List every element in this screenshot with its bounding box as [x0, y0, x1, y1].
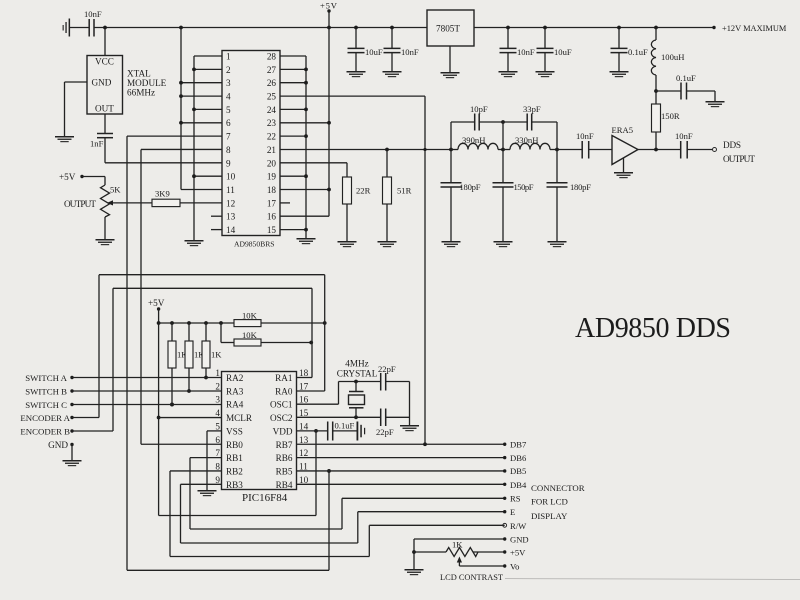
node C [555, 148, 559, 152]
node B [501, 148, 505, 152]
resistor 10K (upper, to ENCODER A line) [234, 311, 327, 327]
svg-text:VDD: VDD [273, 426, 293, 436]
ground (150pF node B) [494, 241, 513, 247]
svg-text:SWITCH A: SWITCH A [25, 373, 67, 383]
IC U1 AD9850BRS body [222, 51, 280, 249]
svg-text:10K: 10K [242, 311, 258, 321]
wire ENCODER B to PIC RA1 (routed over top) [72, 288, 312, 431]
svg-text:11: 11 [299, 462, 308, 472]
svg-text:13: 13 [226, 212, 236, 222]
wire MCLR to +5V [157, 416, 222, 420]
ground (10nF x392) [383, 71, 402, 77]
svg-text:GND: GND [510, 535, 529, 545]
capacitor 1nF (xtal out) [90, 114, 113, 149]
node ENCODER B terminal [20, 427, 73, 437]
svg-text:10: 10 [226, 172, 236, 182]
svg-text:12: 12 [299, 448, 309, 458]
AD9850 pin 17 stub [280, 202, 290, 204]
svg-text:11: 11 [226, 185, 235, 195]
svg-text:FOR LCD: FOR LCD [531, 497, 568, 507]
capacitor 10nF (rail, x508) [500, 26, 535, 71]
capacitor 10nF (series into ERA5) [557, 131, 612, 159]
ground (under 7805) [441, 72, 460, 78]
svg-text:+5V: +5V [59, 172, 76, 182]
wire LCD GND row [412, 539, 505, 569]
wire +5V return to VDD (routed under PIC) [159, 429, 318, 516]
inductor 100uH [651, 26, 684, 104]
ground (AD9850 right bus) [297, 238, 316, 244]
wire OSC2 row [297, 415, 381, 419]
op-amp ERA5 (MMIC amplifier) [612, 125, 639, 172]
svg-text:DB7: DB7 [510, 440, 527, 450]
svg-text:MCLR: MCLR [226, 413, 253, 423]
capacitor 10nF (DDS output coupling) [675, 131, 713, 159]
ground (22R) [338, 241, 357, 247]
svg-text:+5V: +5V [320, 1, 338, 11]
svg-text:+5V: +5V [510, 548, 526, 558]
svg-text:RB0: RB0 [226, 440, 243, 450]
svg-text:7: 7 [226, 132, 231, 142]
inductor 330nH [503, 135, 557, 150]
svg-text:OUTPUT: OUTPUT [723, 154, 755, 164]
svg-text:27: 27 [267, 65, 277, 75]
wire xtal GND to ground [65, 82, 88, 136]
svg-text:1: 1 [226, 52, 231, 62]
svg-text:8: 8 [215, 462, 220, 472]
svg-text:ERA5: ERA5 [612, 125, 633, 135]
svg-text:10nF: 10nF [675, 131, 693, 141]
wire rail to AD9850 pins 3,4,6,11 (x181 drop) [179, 26, 222, 190]
wire RB6 row to DB6 [297, 457, 505, 459]
svg-text:SWITCH C: SWITCH C [25, 400, 67, 410]
wire VDD row [297, 430, 328, 432]
wire AD9850 left ground bus (pins 1,2,5,10) [192, 56, 222, 240]
ground (xtal module) [55, 136, 74, 142]
node ENCODER A terminal [20, 413, 73, 423]
svg-text:10nF: 10nF [401, 47, 419, 57]
node A (filter input) [449, 148, 453, 152]
svg-text:0.1uF: 0.1uF [676, 73, 696, 83]
capacitor 180pF (node A) [441, 150, 481, 242]
svg-text:22R: 22R [356, 186, 371, 196]
svg-text:17: 17 [267, 198, 277, 208]
svg-text:14: 14 [299, 421, 309, 431]
capacitor 0.1uF (rail, x619) [611, 26, 649, 71]
svg-text:Vo: Vo [510, 562, 519, 572]
ground (0.1uF after 100uH) [706, 101, 725, 107]
node DB6 terminal [503, 453, 527, 463]
capacitor 10nF (rail, x392) [384, 26, 419, 71]
node SWITCH B terminal [25, 386, 73, 396]
node GND terminal (LCD) [503, 535, 529, 545]
svg-text:DB5: DB5 [510, 466, 526, 476]
svg-text:RB4: RB4 [276, 480, 293, 490]
svg-text:RB5: RB5 [276, 467, 293, 477]
wire SWITCH A to PIC RA2 [72, 377, 222, 379]
svg-text:E: E [510, 507, 515, 517]
capacitor 33pF (bridge over 330nH) [503, 104, 557, 150]
svg-text:ENCODER B: ENCODER B [20, 427, 70, 437]
svg-text:180pF: 180pF [570, 182, 591, 192]
svg-text:GND: GND [48, 440, 68, 450]
svg-text:51R: 51R [397, 186, 412, 196]
svg-text:18: 18 [299, 368, 309, 378]
resistor 1K (pull-up RA3) [185, 321, 205, 393]
svg-text:20: 20 [267, 158, 277, 168]
ground (crystal) [400, 425, 419, 431]
svg-text:7: 7 [215, 448, 220, 458]
PIC16F84 pin numbers left [215, 368, 220, 485]
svg-text:8: 8 [226, 145, 231, 155]
wire +12V rail (right of 7805) [474, 27, 714, 29]
crystal 4MHz [337, 359, 378, 418]
capacitor 0.1uF (after 100uH) [654, 73, 715, 101]
ground (AD9850 left bus) [185, 240, 204, 246]
capacitor 180pF (node C) [547, 150, 592, 242]
svg-text:SWITCH B: SWITCH B [25, 386, 67, 396]
faint scan line (bottom right) [505, 579, 800, 580]
capacitor 150pF (node B) [493, 150, 534, 242]
PIC16F84 pin names right [270, 373, 293, 490]
IC U2 PIC16F84 body [222, 372, 297, 505]
ground (0.1uF x619) [610, 71, 629, 77]
svg-text:R/W: R/W [510, 521, 527, 531]
svg-text:PIC16F84: PIC16F84 [242, 492, 288, 504]
svg-text:5: 5 [215, 421, 220, 431]
inductor 390nH [451, 135, 503, 150]
svg-text:VSS: VSS [226, 426, 243, 436]
svg-text:3K9: 3K9 [155, 189, 170, 199]
svg-text:OUT: OUT [95, 104, 114, 114]
ground (ERA5) [614, 172, 633, 178]
node Vo terminal (LCD) [503, 562, 519, 572]
svg-text:2: 2 [226, 65, 231, 75]
ground (10nF x508) [499, 71, 518, 77]
svg-text:LCD CONTRAST: LCD CONTRAST [440, 573, 503, 582]
svg-text:RA2: RA2 [226, 373, 244, 383]
wire AD9850 right ground bus (pins 28,27,26,24,22,19,15) [280, 56, 308, 238]
resistor 51R (pin 21 line) [383, 148, 412, 241]
svg-text:22pF: 22pF [378, 364, 396, 374]
svg-text:25: 25 [267, 92, 277, 102]
wire RB3 to LCD E (routed under) [181, 484, 505, 543]
svg-text:XTAL: XTAL [127, 69, 151, 79]
PIC16F84 pin numbers right [299, 368, 309, 485]
wire RB2 to LCD R/W (routed under) [170, 471, 505, 557]
wire crystal caps to ground [409, 382, 411, 426]
svg-text:4MHz: 4MHz [345, 359, 368, 369]
svg-text:RB6: RB6 [276, 453, 293, 463]
svg-text:330nH: 330nH [515, 135, 538, 145]
wire SWITCH B to PIC RA3 [72, 390, 222, 392]
node GND terminal [48, 440, 74, 460]
AD9850 pin 13,14 stubs [211, 216, 222, 229]
wire RB5 row to DB5 [297, 470, 505, 472]
svg-text:CRYSTAL: CRYSTAL [337, 369, 378, 379]
capacitor 22pF (OSC1) [378, 364, 410, 391]
capacitor 10uF (rail, x356) [348, 26, 383, 71]
resistor 150R [652, 104, 680, 150]
ground (PIC VSS) [198, 490, 217, 496]
node DB5 terminal [503, 466, 526, 476]
svg-text:RB7: RB7 [276, 440, 293, 450]
svg-text:RB2: RB2 [226, 467, 243, 477]
svg-text:0.1uF: 0.1uF [335, 421, 355, 431]
svg-text:17: 17 [299, 381, 309, 391]
node DB4 terminal [503, 480, 527, 490]
svg-text:10nF: 10nF [517, 47, 535, 57]
svg-text:RS: RS [510, 494, 521, 504]
node SWITCH C terminal [25, 400, 73, 410]
capacitor 22pF (OSC2) [376, 409, 410, 438]
svg-text:DB4: DB4 [510, 480, 527, 490]
ground (10uF x356) [347, 71, 366, 77]
svg-text:RB3: RB3 [226, 480, 243, 490]
wire AD9850 pin 8 FQ_UD (down to x141) [141, 149, 222, 444]
ground (51R) [378, 241, 397, 247]
wire RB4 row to DB4 [297, 483, 505, 485]
svg-text:150pF: 150pF [514, 182, 534, 192]
svg-text:10uF: 10uF [365, 47, 383, 57]
wire SWITCH C to PIC RA4 [72, 404, 222, 406]
node RS terminal [503, 494, 521, 504]
svg-text:15: 15 [299, 408, 309, 418]
resistor 1K (pull-up RA4) [168, 321, 188, 406]
svg-text:+5V: +5V [148, 298, 165, 308]
svg-text:10nF: 10nF [576, 131, 594, 141]
svg-text:66MHz: 66MHz [127, 88, 155, 98]
node SWITCH A terminal [25, 373, 73, 383]
svg-text:4: 4 [215, 408, 220, 418]
wire +5V drop to AD9850 pins 23,18,16 [280, 28, 331, 217]
svg-text:RA4: RA4 [226, 400, 244, 410]
svg-text:AD9850 DDS: AD9850 DDS [575, 313, 731, 344]
svg-text:14: 14 [226, 225, 236, 235]
svg-text:10uF: 10uF [554, 47, 572, 57]
svg-text:28: 28 [267, 52, 277, 62]
svg-text:0.1uF: 0.1uF [628, 47, 648, 57]
wire AD9850 pin 21 IOUT to filter [280, 148, 451, 151]
AD9850 pin numbers left column [226, 52, 236, 236]
svg-text:5K: 5K [110, 185, 121, 195]
ground (LCD contrast pot) [405, 569, 424, 575]
node DB7 terminal [503, 440, 527, 450]
svg-text:6: 6 [215, 435, 220, 445]
resistor 1K (pull-up RA2) [202, 321, 222, 379]
svg-text:RA1: RA1 [275, 373, 293, 383]
wire W_CLK bottom run (AD9850 pin7 to PIC RB5) [127, 469, 331, 570]
node E terminal [503, 507, 515, 517]
ground (GND terminal) [63, 460, 82, 466]
capacitor 10pF (bridge over 390nH) [451, 104, 505, 150]
node +5V terminal (LCD) [503, 548, 526, 558]
capacitor 0.1uF (VDD decoupling) [328, 421, 357, 441]
svg-text:10pF: 10pF [470, 104, 488, 114]
ground (5K pot) [96, 239, 115, 245]
wire ERA5 output [638, 148, 681, 152]
ground (10uF x545) [536, 71, 555, 77]
ground (sideways, far top-left) [63, 19, 71, 37]
svg-text:33pF: 33pF [523, 104, 541, 114]
svg-text:16: 16 [299, 395, 309, 405]
svg-text:390nH: 390nH [462, 135, 485, 145]
svg-text:23: 23 [267, 118, 277, 128]
svg-text:CONNECTOR: CONNECTOR [531, 483, 585, 493]
text CONNECTOR FOR LCD DISPLAY [531, 483, 585, 521]
wire RB7 row to DB7 (with DATA junction) [297, 442, 505, 446]
resistor 22R (pin 20) [280, 163, 371, 241]
node +12V MAXIMUM terminal [712, 24, 787, 33]
PIC16F84 pin names left [226, 373, 253, 490]
svg-text:19: 19 [267, 172, 277, 182]
ground (180pF node C) [548, 241, 567, 247]
svg-text:9: 9 [215, 475, 220, 485]
svg-text:10nF: 10nF [84, 9, 102, 19]
svg-text:12: 12 [226, 198, 236, 208]
svg-text:5: 5 [226, 105, 231, 115]
svg-text:DDS: DDS [723, 140, 741, 150]
wire +5V rail (left of 7805) [94, 27, 427, 29]
wire OSC1 to crystal [297, 380, 381, 405]
svg-text:1K: 1K [211, 350, 222, 360]
svg-text:3: 3 [226, 78, 231, 88]
svg-text:3: 3 [215, 395, 220, 405]
node +5V (top) [320, 1, 338, 30]
wire VSS to ground [207, 431, 222, 490]
svg-text:15: 15 [267, 225, 277, 235]
svg-text:DISPLAY: DISPLAY [531, 511, 568, 521]
svg-text:OUTPUT: OUTPUT [64, 199, 96, 209]
svg-text:24: 24 [267, 105, 277, 115]
ground (180pF node A) [442, 241, 461, 247]
svg-text:22pF: 22pF [376, 427, 394, 437]
potentiometer 5K with +5V feed [59, 172, 121, 239]
xtal module 66MHz [87, 56, 167, 115]
svg-text:MODULE: MODULE [127, 78, 167, 88]
svg-text:2: 2 [215, 381, 220, 391]
svg-text:10K: 10K [242, 330, 258, 340]
wire xtal VCC to rail [103, 26, 107, 56]
svg-text:OSC2: OSC2 [270, 413, 293, 423]
svg-text:9: 9 [226, 158, 231, 168]
svg-text:100uH: 100uH [661, 52, 684, 62]
svg-text:4: 4 [226, 92, 231, 102]
svg-text:1: 1 [215, 368, 220, 378]
svg-text:21: 21 [267, 145, 277, 155]
resistor 10K (lower, to ENCODER B line) [219, 321, 313, 346]
AD9850 pin numbers right column [267, 52, 277, 236]
svg-text:150R: 150R [661, 111, 680, 121]
wire xtal clock to AD9850 pin 9 [105, 138, 222, 163]
svg-text:ENCODER A: ENCODER A [20, 413, 70, 423]
svg-text:22: 22 [267, 132, 277, 142]
wire AD9850 pin 7 W_CLK (down to x127) [127, 136, 222, 570]
svg-text:RB1: RB1 [226, 453, 243, 463]
svg-text:VCC: VCC [95, 57, 114, 67]
svg-text:DB6: DB6 [510, 453, 527, 463]
wire RB1 to LCD RS (routed under) [190, 458, 505, 529]
svg-text:26: 26 [267, 78, 277, 88]
svg-text:7805T: 7805T [436, 24, 460, 34]
node DDS OUTPUT terminal [713, 140, 756, 164]
svg-text:OSC1: OSC1 [270, 400, 293, 410]
svg-text:RA3: RA3 [226, 386, 244, 396]
node R/W terminal [503, 521, 527, 531]
resistor 3K9 (wiper to AD9850 pin 12) [112, 189, 222, 207]
svg-text:18: 18 [267, 185, 277, 195]
ground (sideways, VDD decoupling) [357, 422, 366, 441]
potentiometer 1K LCD CONTRAST [414, 540, 505, 583]
svg-text:AD9850BRS: AD9850BRS [234, 240, 275, 249]
capacitor 10uF (rail, x545) [537, 26, 572, 71]
wire ENCODER A to PIC RA0 (routed over top) [72, 275, 325, 418]
svg-text:1K: 1K [452, 540, 463, 550]
svg-text:10: 10 [299, 475, 309, 485]
node +5V (PIC section) [148, 298, 165, 516]
svg-text:1nF: 1nF [90, 139, 104, 149]
svg-text:+12V MAXIMUM: +12V MAXIMUM [722, 24, 787, 33]
wire +5V pullup bus [159, 322, 325, 324]
wire AD9850 pin 25 DATA (right and down x425) [280, 96, 425, 444]
svg-text:180pF: 180pF [460, 182, 481, 192]
svg-text:RA0: RA0 [275, 386, 293, 396]
capacitor 10nF (top-left series) [70, 9, 102, 37]
svg-text:6: 6 [226, 118, 231, 128]
svg-text:GND: GND [92, 78, 112, 88]
svg-text:13: 13 [299, 435, 309, 445]
svg-text:16: 16 [267, 212, 277, 222]
wire RB0 row (joins AD9850 pin 8 line) [141, 443, 222, 445]
regulator 7805T [427, 10, 474, 72]
